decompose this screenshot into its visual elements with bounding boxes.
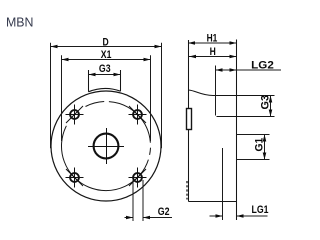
dimension LG2 [216,66,282,116]
bolt circle dash top-right to right [109,102,150,143]
svg-text:G3: G3 [259,95,271,110]
dimension H1 [188,41,237,45]
boss side wall left / G3 extension left [88,70,90,92]
boss arc on top of flange [89,88,121,91]
bolt circle long arc bottom-left [61,126,148,191]
dimension G3 (side, vertical) [269,96,273,117]
dimension LG1 [210,148,268,220]
connector plate on back [187,109,192,130]
svg-text:G2: G2 [158,206,170,218]
dimension G3 (front) [89,73,121,77]
svg-text:LG1: LG1 [252,204,269,216]
dimension G2 (front, bolt hole dia) [125,180,173,221]
svg-text:X1: X1 [101,49,112,61]
svg-text:H1: H1 [207,33,218,45]
svg-text:D: D [103,36,109,48]
svg-text:LG2: LG2 [251,60,274,72]
hidden dashed edge bottom-left [186,181,188,200]
flange outer circle [51,91,161,201]
dimension D [51,43,162,148]
body back edge (left) [188,40,190,202]
dimension H [189,55,237,59]
bolt circle dash top-left [86,102,105,107]
dimension G1 (side, vertical) [237,135,270,160]
bolt circle short dash right [149,148,152,155]
svg-text:MBN: MBN [6,14,34,29]
body bottom [189,201,237,203]
center bore [88,128,124,164]
dimension X1 [62,55,151,141]
body top line / G3 top extension [213,95,275,97]
svg-text:H: H [210,46,216,58]
step edge / G3 bottom extension [217,116,275,118]
boss side wall right / G3 extension right [120,70,122,91]
body front face (right) [236,40,238,221]
bolt hole top-right [129,105,147,125]
bolt hole bottom-right [129,168,147,188]
svg-text:G3: G3 [99,63,111,75]
bolt hole bottom-left [66,168,84,188]
bolt hole top-left [66,105,84,125]
body top taper curve [189,90,214,96]
svg-text:G1: G1 [253,138,265,152]
